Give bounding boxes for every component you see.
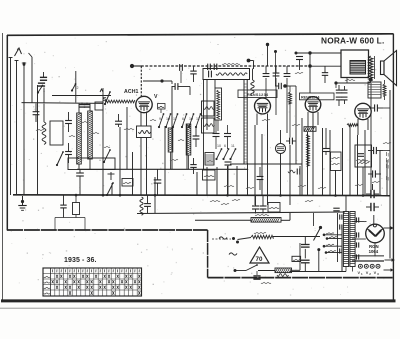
- svg-text:V: V: [154, 94, 158, 100]
- svg-text:1935 - 36.: 1935 - 36.: [64, 257, 97, 264]
- svg-text:ACH1: ACH1: [124, 89, 139, 95]
- svg-text:10: 10: [166, 117, 170, 121]
- svg-text:NORA-W 600 L.: NORA-W 600 L.: [321, 36, 384, 46]
- svg-text:10: 10: [217, 144, 221, 148]
- svg-text:6: 6: [182, 117, 184, 121]
- svg-text:2: 2: [77, 86, 79, 90]
- svg-text:9: 9: [159, 117, 161, 121]
- svg-text:11: 11: [173, 117, 177, 121]
- svg-text:11: 11: [231, 144, 235, 148]
- svg-text:70: 70: [256, 256, 263, 263]
- svg-text:10: 10: [189, 117, 193, 121]
- svg-text:1064: 1064: [369, 249, 379, 254]
- svg-text:11: 11: [196, 117, 200, 121]
- svg-text:6: 6: [224, 144, 226, 148]
